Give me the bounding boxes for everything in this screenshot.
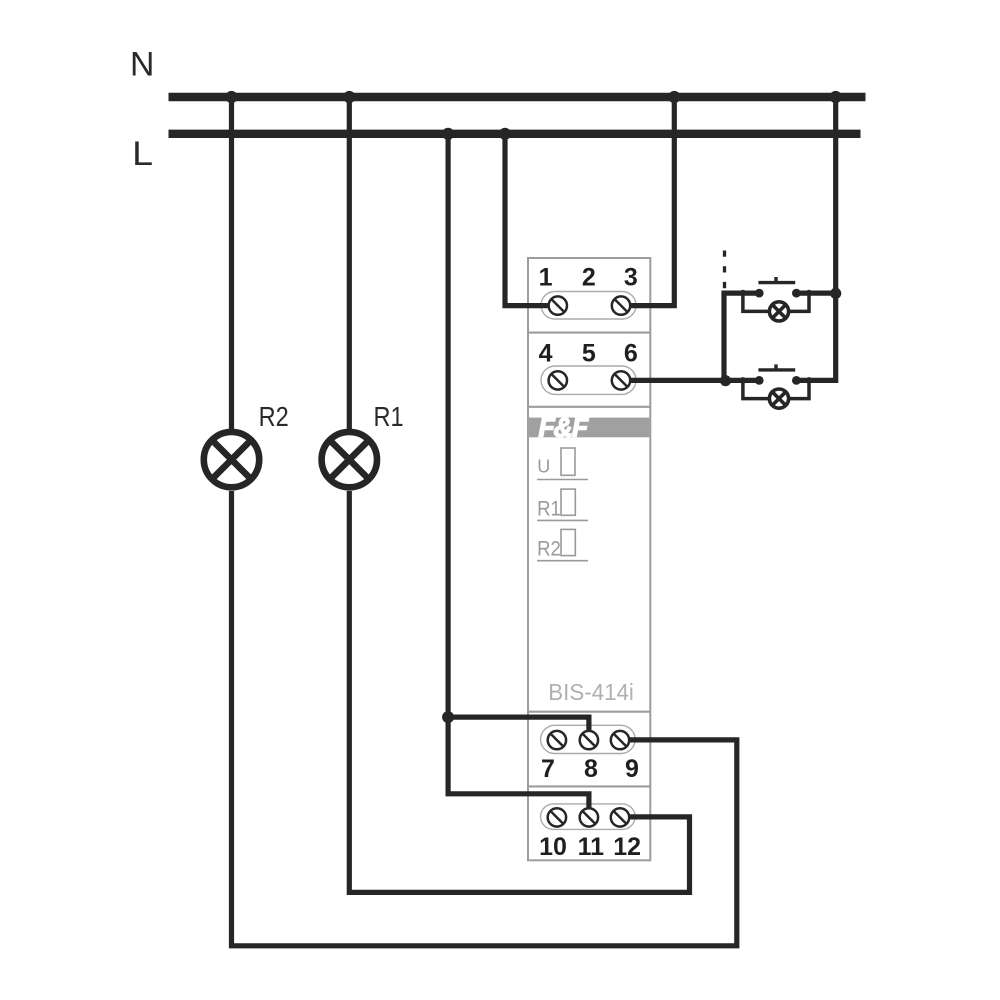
svg-text:R2: R2	[537, 537, 561, 561]
svg-text:R1: R1	[374, 401, 404, 432]
svg-text:L: L	[132, 135, 153, 173]
svg-text:8: 8	[584, 755, 598, 783]
svg-text:5: 5	[582, 339, 596, 367]
svg-text:BIS-414i: BIS-414i	[548, 679, 634, 705]
svg-text:2: 2	[582, 264, 596, 292]
svg-text:7: 7	[541, 755, 555, 783]
svg-text:1: 1	[539, 264, 553, 292]
svg-text:11: 11	[578, 833, 605, 861]
svg-text:3: 3	[624, 264, 638, 292]
svg-text:4: 4	[539, 339, 553, 367]
svg-text:9: 9	[625, 755, 639, 783]
svg-text:10: 10	[539, 833, 567, 861]
svg-text:R2: R2	[259, 401, 289, 432]
svg-text:N: N	[130, 46, 154, 84]
svg-text:U: U	[537, 457, 550, 477]
svg-text:12: 12	[613, 833, 641, 861]
svg-text:6: 6	[624, 339, 638, 367]
svg-text:F&F: F&F	[539, 413, 589, 443]
svg-text:R1: R1	[537, 496, 561, 520]
